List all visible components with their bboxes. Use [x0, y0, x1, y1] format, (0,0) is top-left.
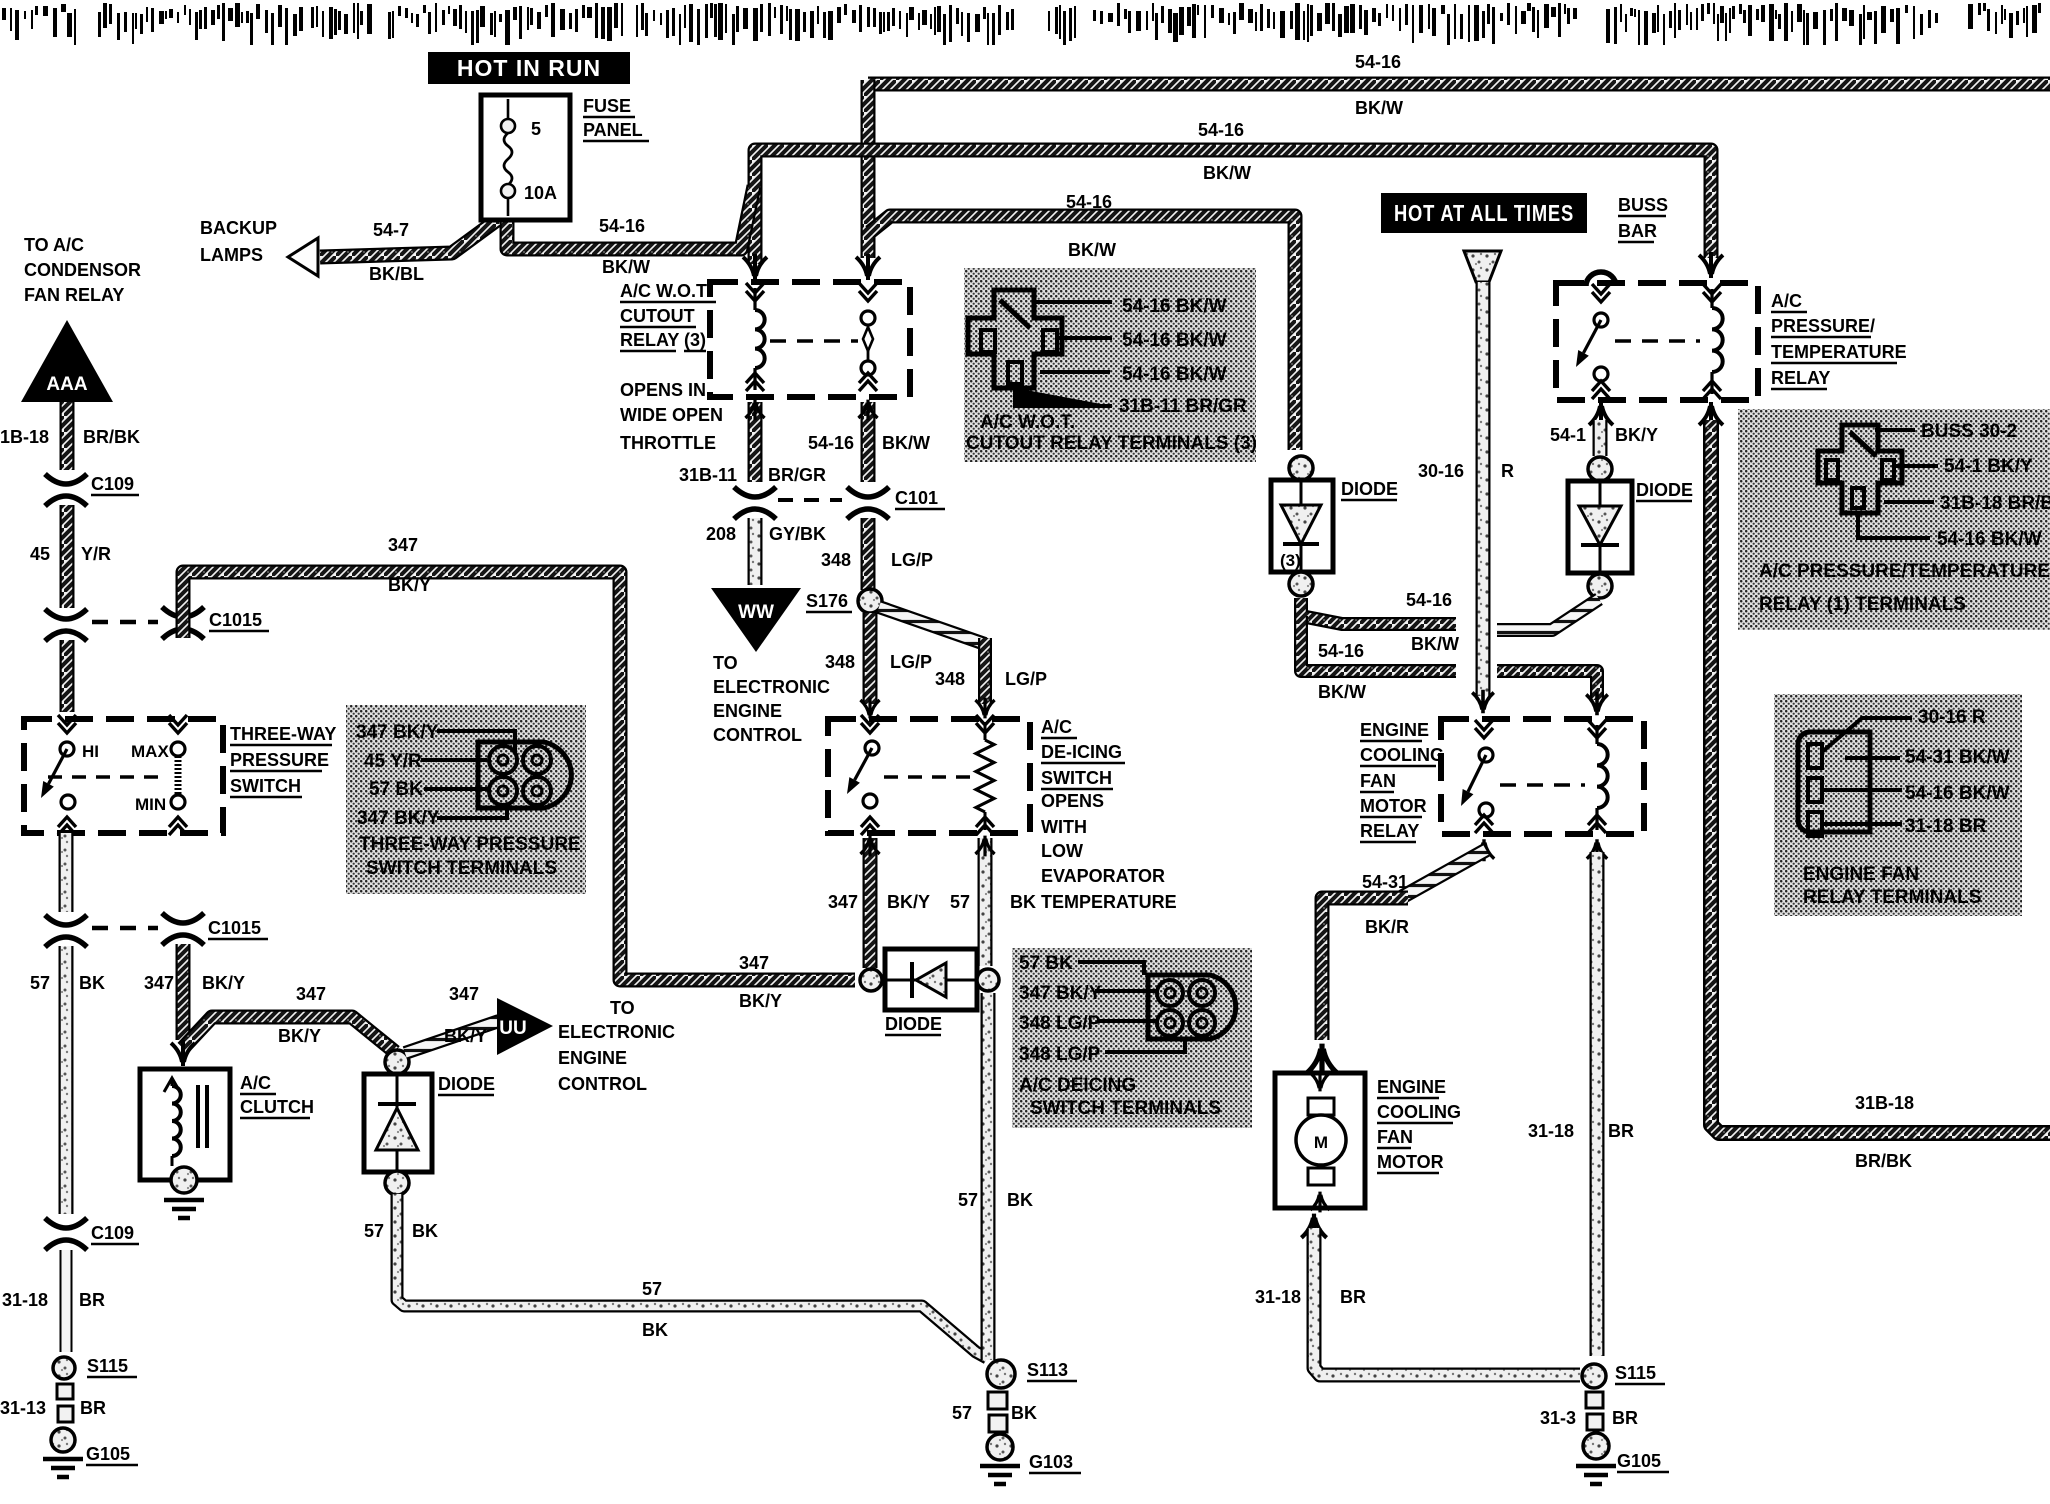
wire 347 BK/Y below de-icing	[863, 838, 878, 968]
fan relay coil	[1588, 720, 1608, 833]
A/C de-icing switch box	[828, 719, 1030, 833]
label MOTOR (relay)	[1360, 796, 1427, 817]
label DE-ICING	[1041, 742, 1125, 763]
svg-text:LG/P: LG/P	[1005, 669, 1047, 689]
wire 208 GY/BK to WW	[748, 518, 763, 585]
terminal fork below WOT relay right	[858, 400, 877, 421]
svg-text:54-16: 54-16	[1066, 192, 1112, 212]
label BK (right of D1)	[1007, 1190, 1033, 1210]
label ELECTRONIC (WW)	[713, 677, 830, 697]
svg-text:WITH: WITH	[1041, 817, 1087, 837]
svg-text:RELAY: RELAY	[1360, 821, 1419, 841]
label 54-16 (top run)	[1355, 52, 1401, 72]
svg-text:FAN: FAN	[1360, 771, 1396, 791]
HOT AT ALL TIMES header box	[1381, 193, 1587, 233]
diode D3 top node	[1289, 456, 1313, 480]
svg-text:BR: BR	[1612, 1408, 1638, 1428]
svg-text:BR/BK: BR/BK	[83, 427, 140, 447]
svg-text:LOW: LOW	[1041, 841, 1083, 861]
label BR (31-3)	[1612, 1408, 1638, 1428]
label 57 (left)	[30, 973, 50, 993]
terminal fork below de-icing right	[975, 836, 994, 857]
terminal fork into A/C clutch	[171, 1040, 195, 1066]
svg-text:FUSE: FUSE	[583, 96, 631, 116]
label 347 (UU run)	[449, 984, 479, 1004]
svg-text:31B-18 BR/B: 31B-18 BR/B	[1940, 493, 2050, 514]
label MIN	[135, 795, 166, 814]
wire 347 BK/Y into UU arrow	[405, 1021, 499, 1053]
connector C1015 right half	[162, 607, 204, 639]
label CLUTCH	[240, 1097, 314, 1118]
wire 54-16 BK/W from fuse panel	[507, 186, 754, 249]
label 208	[706, 524, 736, 544]
hook above P-T relay left pin	[1586, 272, 1616, 286]
svg-text:347: 347	[828, 892, 858, 912]
label 57 (below de-icing)	[950, 892, 970, 912]
wire 57 BK from diode D2 to S113	[397, 1194, 987, 1358]
svg-text:RELAY (1) TERMINALS: RELAY (1) TERMINALS	[1759, 594, 1966, 615]
A/C clutch coil and core	[164, 1078, 207, 1166]
label S176	[806, 591, 852, 612]
three-way pressure switch box	[24, 719, 223, 833]
diode D4 top node	[1588, 457, 1612, 481]
fork below fan relay left pin	[1474, 839, 1494, 861]
svg-text:BK: BK	[1011, 1403, 1037, 1423]
svg-text:BK/Y: BK/Y	[202, 973, 245, 993]
label BR/BK (left)	[83, 427, 140, 447]
svg-text:57: 57	[642, 1279, 662, 1299]
label BR/GR	[768, 465, 826, 485]
label LAMPS	[200, 245, 263, 265]
label HI	[82, 742, 99, 761]
svg-text:31B-18: 31B-18	[0, 427, 49, 447]
svg-text:45 Y/R: 45 Y/R	[364, 751, 422, 772]
label ENGINE (motor)	[1377, 1077, 1446, 1098]
svg-text:RELAY TERMINALS: RELAY TERMINALS	[1803, 887, 1981, 908]
svg-text:CUTOUT: CUTOUT	[620, 306, 695, 326]
inset: A/C deicing switch terminals	[1012, 948, 1252, 1128]
three-way switch HI contact and arm	[41, 742, 75, 809]
svg-text:C109: C109	[91, 1223, 134, 1243]
label ENGINE (relay)	[1360, 720, 1429, 741]
terminal fork into de-icing left	[860, 698, 879, 719]
svg-text:31-18: 31-18	[2, 1290, 48, 1310]
label 31-18 (left bottom)	[2, 1290, 48, 1310]
fork below P-T relay right pin	[1699, 402, 1723, 428]
label DIODE (3)	[1341, 479, 1398, 500]
diode D1 right node	[977, 969, 999, 991]
label GY/BK	[769, 524, 826, 544]
label 347 (below de-icing)	[828, 892, 858, 912]
svg-text:COOLING: COOLING	[1377, 1102, 1461, 1122]
pigtail squares below S115 right	[1586, 1392, 1603, 1430]
fuse panel box	[481, 95, 570, 220]
label SWITCH	[230, 776, 302, 797]
svg-text:OPENS: OPENS	[1041, 791, 1104, 811]
svg-text:347: 347	[449, 984, 479, 1004]
svg-text:G105: G105	[1617, 1451, 1661, 1471]
inset: three-way pressure switch terminals	[346, 705, 586, 894]
engine cooling fan motor box	[1275, 1073, 1365, 1208]
label ELECTRONIC (UU)	[558, 1022, 675, 1042]
svg-text:5: 5	[531, 119, 541, 139]
svg-text:348: 348	[935, 669, 965, 689]
terminal fork below de-icing left	[860, 836, 879, 857]
svg-text:54-16: 54-16	[1318, 641, 1364, 661]
label MAX	[131, 742, 169, 761]
dashed link lower C1015	[92, 926, 158, 931]
label WIDE OPEN	[620, 405, 723, 425]
label BK/W (third run)	[1068, 240, 1116, 260]
svg-text:57: 57	[952, 1403, 972, 1423]
svg-text:BK: BK	[1010, 892, 1036, 912]
label BK/W (top run)	[1355, 98, 1403, 118]
svg-text:PRESSURE/: PRESSURE/	[1771, 316, 1875, 336]
svg-text:OPENS IN: OPENS IN	[620, 380, 706, 400]
label 348 (left branch)	[825, 652, 855, 672]
label 54-16 (link upper)	[1406, 590, 1452, 610]
wire 348 LG/P from S176 to de-icing left	[863, 613, 878, 704]
underline BUSS	[1618, 215, 1666, 218]
svg-text:FAN RELAY: FAN RELAY	[24, 285, 124, 305]
svg-text:54-7: 54-7	[373, 220, 409, 240]
svg-text:A/C W.O.T.: A/C W.O.T.	[980, 412, 1075, 433]
backup lamps arrow head	[288, 238, 318, 276]
svg-text:ELECTRONIC: ELECTRONIC	[558, 1022, 675, 1042]
svg-text:BR/GR: BR/GR	[768, 465, 826, 485]
svg-text:(3): (3)	[1280, 551, 1301, 570]
splice S115 left	[53, 1357, 75, 1379]
diode D3 box	[1271, 480, 1333, 572]
label 54-16 (link lower)	[1318, 641, 1364, 661]
A/C pressure/temperature relay box	[1556, 283, 1758, 400]
svg-text:BK/W: BK/W	[1355, 98, 1403, 118]
terminal fork into A/C WOT relay right pin	[856, 254, 880, 280]
label 54-16 (second run)	[1198, 120, 1244, 140]
label 30-16	[1418, 461, 1464, 481]
svg-text:LAMPS: LAMPS	[200, 245, 263, 265]
label ENGINE (WW)	[713, 701, 782, 721]
wire 54-16 BK/W top run (net 54-16)	[868, 77, 2050, 92]
WOT relay internal dashed link	[770, 339, 858, 343]
label BR/BK (bottom right)	[1855, 1151, 1912, 1171]
terminal fork into A/C WOT relay left pin	[743, 254, 767, 280]
svg-text:208: 208	[706, 524, 736, 544]
label EVAPORATOR	[1041, 866, 1165, 886]
wire 54-16 BK/W third run to diode (3)	[870, 216, 1295, 450]
svg-text:G105: G105	[86, 1444, 130, 1464]
label 31B-18 (bottom right)	[1855, 1093, 1914, 1113]
diode D3 symbol	[1281, 480, 1321, 572]
connector C109 (upper)	[45, 474, 87, 506]
svg-text:A/C: A/C	[1771, 291, 1802, 311]
svg-text:COOLING: COOLING	[1360, 745, 1444, 765]
label FAN (relay)	[1360, 771, 1396, 792]
node S-junction at diode top	[385, 1050, 409, 1074]
connector C1015 left half	[45, 609, 87, 641]
label BK/W (below relay)	[882, 433, 930, 453]
label A/C W.O.T	[620, 281, 716, 302]
svg-text:31-18: 31-18	[1255, 1287, 1301, 1307]
svg-text:57 BK: 57 BK	[369, 779, 423, 800]
svg-text:BK/R: BK/R	[1365, 917, 1409, 937]
label 31-18 (motor)	[1255, 1287, 1301, 1307]
wire 57 BK to C109 lower	[59, 946, 74, 1214]
label BK/R	[1365, 917, 1409, 937]
buss bar feed funnel (30-16 R top)	[1464, 251, 1501, 282]
WOT relay switch	[859, 283, 877, 391]
wire 30-16 R	[1476, 282, 1491, 696]
svg-text:MAX: MAX	[131, 742, 169, 761]
label FAN (motor)	[1377, 1127, 1413, 1148]
svg-text:A/C: A/C	[1041, 717, 1072, 737]
label OPENS IN	[620, 380, 706, 400]
scanner noise band	[2, 3, 2041, 45]
A/C clutch box	[140, 1069, 230, 1180]
three-way switch internal dashed link	[48, 775, 168, 779]
svg-text:BK/Y: BK/Y	[444, 1026, 487, 1046]
label ENGINE (UU)	[558, 1048, 627, 1068]
label WITH	[1041, 817, 1087, 837]
label BR (31-13)	[80, 1398, 106, 1418]
three-way switch MAX terminal fork	[169, 715, 187, 733]
dashed link C101	[778, 498, 842, 502]
svg-text:A/C DEICING: A/C DEICING	[1019, 1075, 1136, 1096]
svg-text:BAR: BAR	[1618, 221, 1657, 241]
label 31-3	[1540, 1408, 1576, 1428]
svg-text:57: 57	[950, 892, 970, 912]
label 347 (loop bottom)	[739, 953, 769, 973]
label BK/W (second run)	[1203, 163, 1251, 183]
diode D2 bottom node	[385, 1171, 409, 1195]
label 54-31	[1362, 872, 1408, 892]
svg-text:SWITCH TERMINALS: SWITCH TERMINALS	[366, 858, 557, 879]
label C1015	[209, 610, 269, 631]
three-way switch top terminal fork	[58, 715, 76, 733]
label BK/Y (below C1015)	[202, 973, 245, 993]
label 57 (below D2)	[364, 1221, 384, 1241]
svg-text:A/C PRESSURE/TEMPERATURE: A/C PRESSURE/TEMPERATURE	[1759, 561, 2050, 582]
label 57 (right of D1)	[958, 1190, 978, 1210]
label 348 (right branch)	[935, 669, 965, 689]
svg-text:WW: WW	[738, 602, 774, 623]
svg-text:ENGINE FAN: ENGINE FAN	[1803, 864, 1919, 885]
svg-text:31-18: 31-18	[1528, 1121, 1574, 1141]
svg-text:BUSS 30-2: BUSS 30-2	[1921, 421, 2017, 442]
label FAN RELAY	[24, 285, 124, 305]
wire 45 Y/R into three-way pressure switch	[60, 640, 75, 712]
svg-text:THREE-WAY: THREE-WAY	[230, 724, 336, 744]
label S115 (left)	[87, 1356, 137, 1377]
svg-text:C109: C109	[91, 474, 134, 494]
svg-text:30-16: 30-16	[1418, 461, 1464, 481]
svg-text:G103: G103	[1029, 1452, 1073, 1472]
svg-text:SWITCH TERMINALS: SWITCH TERMINALS	[1030, 1098, 1221, 1119]
svg-text:RELAY: RELAY	[1771, 368, 1830, 388]
underline BAR	[1618, 241, 1654, 244]
label 54-16 (third run)	[1066, 192, 1112, 212]
label G105 (left)	[86, 1444, 138, 1465]
svg-text:CONTROL: CONTROL	[558, 1074, 647, 1094]
svg-text:54-16: 54-16	[1406, 590, 1452, 610]
ground node G105 right	[1583, 1433, 1609, 1459]
wire 348 LG/P vertical into de-icing right	[978, 638, 992, 704]
svg-text:30-16 R: 30-16 R	[1918, 707, 1986, 728]
terminal fork into A/C P-T relay right pin	[1699, 252, 1723, 278]
terminal fork into de-icing right	[975, 698, 994, 719]
label BR (left bottom)	[79, 1290, 105, 1310]
label LG/P (left branch)	[890, 652, 932, 672]
wire 347 BK/Y branch to UU arrow	[183, 1017, 395, 1052]
wire 57 BK pigtail squares below S113	[988, 1392, 1007, 1432]
svg-text:347 BK/Y: 347 BK/Y	[1019, 983, 1102, 1004]
wire 54-7 BK/BL to backup lamps	[320, 220, 497, 257]
svg-text:347: 347	[296, 984, 326, 1004]
label 31-13	[0, 1398, 46, 1418]
label COOLING (motor)	[1377, 1102, 1461, 1123]
svg-text:DIODE: DIODE	[1341, 479, 1398, 499]
label RELAY (P-T)	[1771, 368, 1830, 389]
label 57 (long run)	[642, 1279, 662, 1299]
svg-text:SWITCH: SWITCH	[1041, 768, 1112, 788]
diode D1 box (horizontal)	[885, 949, 977, 1010]
label BK/W (link lower)	[1318, 682, 1366, 702]
terminal fork below WOT relay left	[745, 400, 764, 421]
svg-text:57: 57	[958, 1190, 978, 1210]
svg-text:EVAPORATOR: EVAPORATOR	[1041, 866, 1165, 886]
fan motor symbol	[1296, 1071, 1346, 1213]
svg-text:10A: 10A	[524, 183, 557, 203]
svg-text:BK/W: BK/W	[1068, 240, 1116, 260]
svg-text:LG/P: LG/P	[891, 550, 933, 570]
label BK (left)	[79, 973, 105, 993]
label G105 (right)	[1617, 1451, 1669, 1472]
wire 31B-18 BR/BK from AAA	[60, 402, 75, 470]
svg-text:BK/Y: BK/Y	[887, 892, 930, 912]
label THREE-WAY	[230, 724, 336, 745]
svg-text:ENGINE: ENGINE	[1377, 1077, 1446, 1097]
label BK/Y (loop top)	[388, 575, 431, 595]
engine cooling fan motor relay box	[1441, 719, 1644, 834]
wire 31-18 BR from fan relay to S115	[1590, 852, 1605, 1356]
svg-text:347 BK/Y: 347 BK/Y	[356, 722, 439, 743]
svg-text:PRESSURE: PRESSURE	[230, 750, 329, 770]
svg-text:CLUTCH: CLUTCH	[240, 1097, 314, 1117]
diode D3 bottom node	[1289, 572, 1313, 596]
label C109	[91, 474, 139, 495]
wire 54-31 BK/R diagonal	[1402, 850, 1486, 897]
connector pair below three-way switch (C1015 left)	[45, 915, 87, 947]
wire 54-16 BK/W second run from fuse panel to A/C pressure/temperature relay	[755, 150, 1711, 264]
label BK (long run)	[642, 1320, 668, 1340]
wire 54-31 BK/R to fan motor	[1322, 898, 1408, 1040]
wire 31B-11 BR/GR	[748, 402, 763, 482]
label 54-7	[373, 220, 409, 240]
diode D1 left node	[860, 969, 882, 991]
svg-text:54-16 BK/W: 54-16 BK/W	[1905, 783, 2010, 804]
wire 54-16 BK/W below WOT relay	[861, 402, 876, 482]
svg-text:UU: UU	[499, 1018, 526, 1039]
fan relay switch	[1461, 720, 1493, 833]
label BUSS	[1618, 195, 1668, 215]
svg-text:BK/Y: BK/Y	[739, 991, 782, 1011]
diode D4 bottom node	[1588, 574, 1612, 598]
label FUSE	[583, 96, 635, 117]
wire 31-18 BR left	[60, 1250, 73, 1352]
inset: A/C WOT cutout relay terminals	[964, 268, 1257, 462]
svg-text:DIODE: DIODE	[1636, 480, 1693, 500]
wire 54-16 BK/W diode link lower	[1301, 616, 1456, 671]
svg-text:BK/Y: BK/Y	[1615, 425, 1658, 445]
label DIODE (horizontal)	[885, 1014, 942, 1035]
WOT relay coil	[746, 283, 765, 391]
label CONTROL (UU)	[558, 1074, 647, 1094]
svg-text:GY/BK: GY/BK	[769, 524, 826, 544]
svg-text:BK: BK	[1007, 1190, 1033, 1210]
fan relay internal dashed link	[1500, 783, 1585, 787]
wire 347 BK/Y loop from C1015 to diode	[183, 572, 855, 980]
fork below fan relay right pin	[1587, 839, 1607, 861]
label OPENS	[1041, 791, 1104, 811]
label S113	[1027, 1360, 1077, 1381]
wire 57 BK from diode D1 down to S113	[981, 993, 996, 1360]
svg-text:CUTOUT RELAY TERMINALS (3): CUTOUT RELAY TERMINALS (3)	[966, 433, 1257, 454]
label BACKUP	[200, 218, 277, 238]
svg-text:HOT IN RUN: HOT IN RUN	[457, 55, 601, 81]
connector C1015 lower right half	[162, 913, 204, 945]
wire 31B-18 BR/BK far right vertical and bottom run	[1711, 420, 2050, 1133]
label R	[1501, 461, 1514, 481]
svg-text:348: 348	[825, 652, 855, 672]
svg-text:BACKUP: BACKUP	[200, 218, 277, 238]
svg-text:BR: BR	[1608, 1121, 1634, 1141]
svg-text:347 BK/Y: 347 BK/Y	[357, 808, 440, 829]
label PANEL	[583, 120, 649, 141]
label TO (UU)	[610, 998, 635, 1018]
label BR (right)	[1608, 1121, 1634, 1141]
label 31-18 (right)	[1528, 1121, 1574, 1141]
svg-text:BK/W: BK/W	[1318, 682, 1366, 702]
svg-text:ENGINE: ENGINE	[558, 1048, 627, 1068]
svg-text:31B-11 BR/GR: 31B-11 BR/GR	[1119, 396, 1247, 417]
label 54-16 (fuse run)	[599, 216, 645, 236]
label BK/Y (54-1)	[1615, 425, 1658, 445]
P-T relay internal dashed link	[1615, 339, 1700, 343]
label (3) on diode D3	[1280, 551, 1301, 570]
svg-text:BK/Y: BK/Y	[278, 1026, 321, 1046]
terminal fork 54-16 into fan relay coil	[1586, 692, 1608, 715]
svg-text:BR: BR	[1340, 1287, 1366, 1307]
svg-text:31-13: 31-13	[0, 1398, 46, 1418]
de-icing switch arm and contacts	[847, 715, 879, 835]
terminal fork 30-16 R into fan relay	[1472, 690, 1494, 713]
label MOTOR (motor)	[1377, 1152, 1444, 1173]
label LOW	[1041, 841, 1083, 861]
svg-text:57 BK: 57 BK	[1019, 953, 1073, 974]
label C109 (lower)	[91, 1223, 139, 1244]
ground G105 right symbol	[1576, 1466, 1616, 1484]
svg-text:HI: HI	[82, 742, 99, 761]
label 57 (S113)	[952, 1403, 972, 1423]
label BK/W (fuse run)	[602, 257, 650, 277]
connector WW triangle to electronic engine control	[711, 588, 801, 652]
svg-text:54-16: 54-16	[1198, 120, 1244, 140]
svg-text:TEMPERATURE: TEMPERATURE	[1771, 342, 1907, 362]
svg-text:LG/P: LG/P	[890, 652, 932, 672]
svg-text:PANEL: PANEL	[583, 120, 643, 140]
svg-text:BK/W: BK/W	[1203, 163, 1251, 183]
label PRESSURE/	[1771, 316, 1875, 337]
